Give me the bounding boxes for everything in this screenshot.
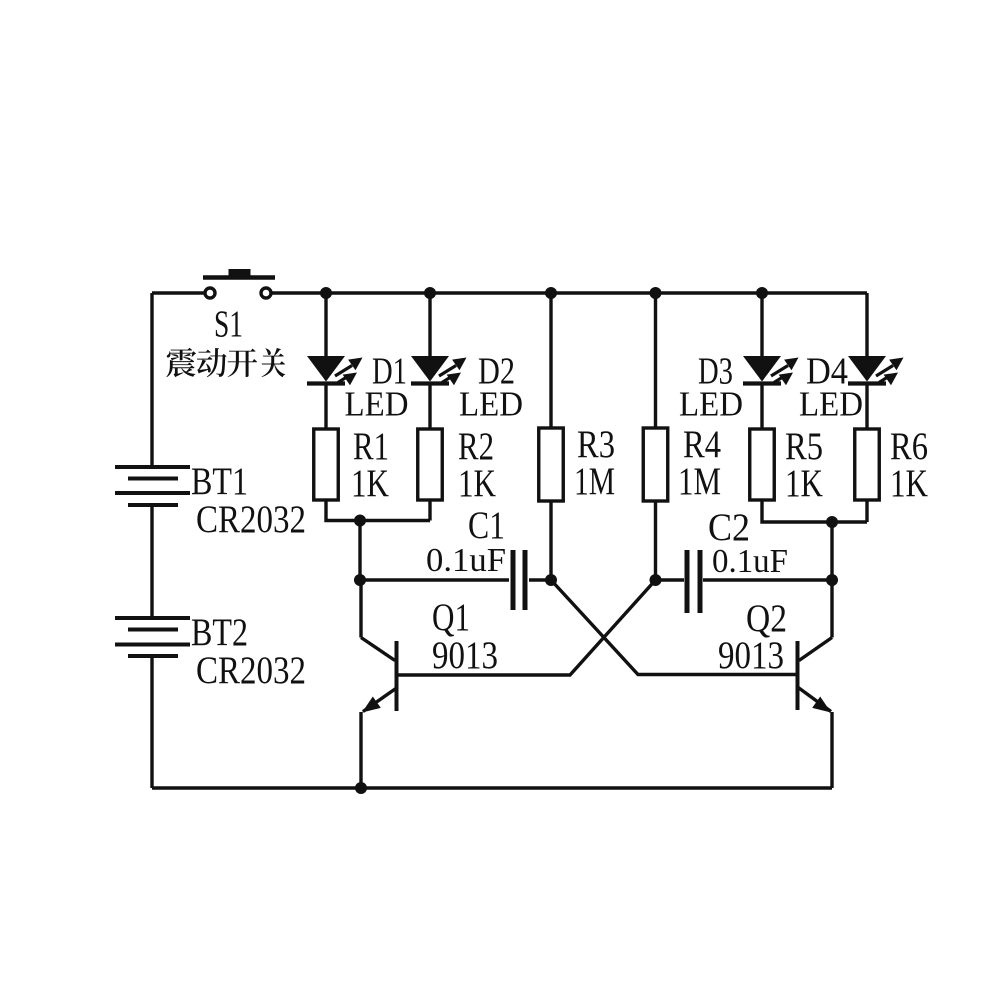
wire D1 to R1 [324,383,327,429]
svg-text:C1: C1 [468,504,505,547]
node dot top rail R4 [650,287,662,299]
svg-text:1K: 1K [351,462,389,505]
svg-text:CR2032: CR2032 [196,498,306,541]
wire R3 bottom [549,501,552,580]
resistor R5 [750,429,775,500]
wire R1 bottom [326,500,430,521]
svg-text:BT2: BT2 [191,611,248,654]
svg-text:LED: LED [679,385,743,424]
wire D2 to R2 [428,383,431,429]
wire D4 branch top [865,293,868,357]
capacitor C1 [360,550,551,610]
node dot C1 right [545,574,557,586]
node dot C1 left [354,574,366,586]
wire D4 to R6 [865,383,868,429]
LED D2 [411,356,467,385]
switch S1 [203,269,275,298]
resistor R3 [539,428,564,501]
wire node B drop to C2 line [830,522,833,580]
capacitor C2 [656,550,833,613]
wire D1 branch top [324,293,327,357]
LED D1 [307,356,363,385]
wire D3 branch top [760,293,763,357]
LED D4 [848,356,904,385]
wire bottom rail [152,786,832,789]
node dot top rail R3 [545,287,557,299]
wire top rail right segment [272,291,867,294]
wire R4 branch top [654,293,657,428]
node dot emitter Q1 bottom rail [355,782,367,794]
svg-text:LED: LED [345,385,409,424]
node dot R5R6 join [826,516,838,528]
svg-text:1M: 1M [574,460,615,503]
wire R3 branch top [549,293,552,428]
svg-text:Q1: Q1 [432,596,470,639]
node dot C2 right [826,574,838,586]
wire D3 to R5 [760,383,763,429]
transistor Q2 [798,580,833,788]
svg-text:0.1uF: 0.1uF [426,542,506,579]
resistor R6 [855,429,880,500]
svg-text:9013: 9013 [432,634,498,677]
svg-text:BT1: BT1 [191,460,248,503]
svg-text:1K: 1K [785,462,823,505]
wire R5 bottom [762,500,867,522]
wire R2 bottom [428,500,431,521]
svg-text:LED: LED [459,385,523,424]
svg-text:1K: 1K [890,462,928,505]
svg-text:S1: S1 [214,304,243,346]
battery BT2 [115,618,190,656]
battery BT1 [115,467,190,505]
resistor R1 [314,429,339,500]
wire node A drop to C1 line [358,521,361,581]
wire top rail left segment [152,291,204,294]
label S1 vibration switch (Chinese) [166,348,285,378]
wire R6 bottom [865,500,868,522]
resistor R4 [643,428,668,501]
svg-text:1M: 1M [678,460,721,503]
svg-text:LED: LED [799,385,863,424]
svg-text:1K: 1K [458,462,496,505]
svg-text:CR2032: CR2032 [196,649,306,692]
wire R4 bottom [654,501,657,580]
node dot C2 left [650,574,662,586]
svg-text:0.1uF: 0.1uF [712,543,788,580]
LED D3 [743,356,799,385]
wire D2 branch top [428,293,431,357]
node dot top rail D2 [424,287,436,299]
wire cross-couple R3 to Q2 base [551,580,796,675]
resistor R2 [418,429,443,500]
node dot top rail D3 [756,287,768,299]
transistor Q1 [361,580,397,788]
node dot R1R2 join [354,515,366,527]
svg-text:9013: 9013 [718,634,784,677]
node dot top rail D1 [320,287,332,299]
wire cross-couple R4 to Q1 base [398,580,656,675]
wire left supply rail [150,293,153,788]
